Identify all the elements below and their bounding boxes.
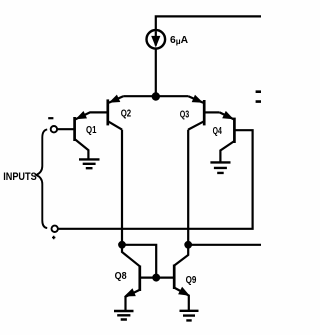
svg-text:Q2: Q2 xyxy=(121,109,132,120)
node right mirror junction xyxy=(184,241,192,249)
input terminal plus xyxy=(52,226,58,232)
node tail junction xyxy=(152,92,160,100)
ground below Q9 xyxy=(180,311,199,321)
ground below Q1 xyxy=(79,159,100,168)
wire emitter rail xyxy=(123,95,188,97)
transistor Q4 xyxy=(233,118,236,143)
svg-text:INPUTS: INPUTS xyxy=(3,171,37,183)
wire current source to tail node xyxy=(155,49,157,94)
transistor Q3 xyxy=(203,100,206,125)
wire positive rail top xyxy=(156,16,261,29)
label plus xyxy=(52,236,55,239)
node left mirror junction xyxy=(118,241,126,249)
svg-text:Q1: Q1 xyxy=(86,125,97,136)
capacitor plates at right edge xyxy=(256,92,261,102)
label minus xyxy=(48,117,53,119)
brace inputs xyxy=(36,129,47,228)
wire right node to edge xyxy=(188,244,261,246)
input terminal minus xyxy=(51,126,57,132)
transistor Q1 xyxy=(73,117,76,141)
wire Q1 base xyxy=(57,128,75,130)
ground below Q8 xyxy=(114,311,134,320)
transistor Q9 xyxy=(173,265,176,290)
svg-text:6μA: 6μA xyxy=(170,35,189,46)
wire left node to bases junction xyxy=(122,245,156,278)
svg-text:Q3: Q3 xyxy=(180,110,190,121)
wire Q2 collector to left node xyxy=(121,130,123,245)
current source I1 6uA xyxy=(147,30,166,49)
node bases junction xyxy=(152,274,160,282)
svg-text:Q9: Q9 xyxy=(186,275,197,286)
transistor Q2 xyxy=(106,99,109,125)
svg-text:Q4: Q4 xyxy=(213,126,222,137)
wire Q3 collector to right node xyxy=(187,130,189,245)
wire IN+ to Q4 base xyxy=(58,130,253,229)
svg-text:Q8: Q8 xyxy=(115,271,127,282)
ground below Q4 xyxy=(210,162,230,173)
transistor Q8 xyxy=(138,266,141,292)
